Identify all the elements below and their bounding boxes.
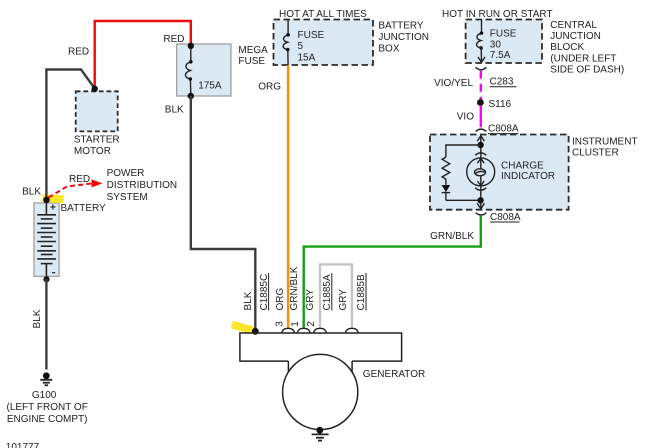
- svg-text:BATTERY: BATTERY: [61, 203, 107, 214]
- svg-text:101777: 101777: [6, 442, 40, 448]
- wire RED battery feed: [95, 21, 191, 89]
- svg-text:2: 2: [306, 321, 317, 327]
- svg-text:VIO/YEL: VIO/YEL: [434, 78, 473, 89]
- instrument cluster box: [430, 135, 569, 210]
- svg-text:ENGINE COMPT): ENGINE COMPT): [7, 414, 88, 425]
- svg-text:RED: RED: [68, 47, 89, 58]
- svg-text:JUNCTION: JUNCTION: [378, 32, 429, 43]
- svg-text:BLK: BLK: [32, 309, 43, 328]
- wire BLK battery to G100: [45, 279, 47, 370]
- lamp charge indicator: [467, 148, 495, 199]
- wire into instrument cluster with up arrow: [477, 135, 484, 145]
- diode in cluster: [442, 185, 451, 192]
- svg-text:G100: G100: [32, 390, 57, 401]
- svg-text:(UNDER LEFT: (UNDER LEFT: [550, 53, 616, 64]
- svg-text:MEGA: MEGA: [238, 45, 268, 56]
- ground G100: [43, 372, 50, 379]
- svg-text:INSTRUMENT: INSTRUMENT: [572, 136, 638, 147]
- svg-text:30: 30: [490, 40, 502, 51]
- svg-text:BLK: BLK: [165, 105, 184, 116]
- fuse F5 15A in battery junction box: [283, 20, 288, 66]
- svg-text:GRY: GRY: [305, 289, 316, 311]
- svg-text:FUSE: FUSE: [238, 56, 265, 67]
- svg-text:INDICATOR: INDICATOR: [501, 171, 555, 182]
- connector C283: [476, 67, 487, 70]
- svg-text:175A: 175A: [198, 81, 222, 92]
- svg-text:BOX: BOX: [378, 43, 399, 54]
- svg-text:15A: 15A: [298, 52, 316, 63]
- generator body: [240, 333, 402, 361]
- generator pin 1 socket: [297, 328, 310, 333]
- svg-text:SYSTEM: SYSTEM: [107, 192, 148, 203]
- svg-text:C808A: C808A: [490, 212, 521, 223]
- svg-text:RED: RED: [163, 34, 184, 45]
- svg-text:GRY: GRY: [338, 289, 349, 311]
- svg-text:CENTRAL: CENTRAL: [550, 20, 597, 31]
- wire BLK mega fuse to generator: [191, 96, 256, 331]
- svg-text:FUSE: FUSE: [298, 30, 325, 41]
- highlighter mark on generator BLK pin: [232, 325, 253, 331]
- fuse F1 175A mega fuse: [185, 46, 190, 96]
- svg-text:BATTERY: BATTERY: [378, 21, 424, 32]
- svg-text:SIDE OF DASH): SIDE OF DASH): [550, 65, 624, 76]
- svg-text:CLUSTER: CLUSTER: [572, 148, 619, 159]
- svg-text:RED: RED: [69, 174, 90, 185]
- wire VIO/YEL C283 to S116: [480, 71, 482, 100]
- svg-text:BLK: BLK: [22, 186, 41, 197]
- svg-text:HOT IN RUN OR START: HOT IN RUN OR START: [442, 9, 553, 20]
- svg-text:CHARGE: CHARGE: [501, 161, 544, 172]
- svg-text:BLK: BLK: [243, 291, 254, 310]
- ground at generator: [316, 427, 323, 434]
- generator pin 3 socket: [282, 328, 295, 333]
- svg-text:7.5A: 7.5A: [490, 50, 511, 61]
- wire BLK battery to starter junction: [46, 70, 94, 201]
- svg-text:(LEFT FRONT OF: (LEFT FRONT OF: [7, 402, 88, 413]
- resistor in cluster: [442, 145, 481, 185]
- connector C808A bottom: [476, 213, 487, 215]
- svg-text:BLOCK: BLOCK: [550, 42, 584, 53]
- connector C808A top: [476, 129, 487, 131]
- svg-text:VIO: VIO: [457, 111, 474, 122]
- svg-text:5: 5: [298, 41, 304, 52]
- fuse F30 7.5A in central junction block: [477, 20, 485, 63]
- red dashed arrow to power distribution system: [49, 184, 92, 198]
- battery box: [34, 203, 59, 276]
- svg-text:MOTOR: MOTOR: [74, 146, 111, 157]
- highlighter mark on battery: [43, 198, 64, 199]
- svg-text:3: 3: [275, 321, 286, 327]
- svg-text:GRN/BLK: GRN/BLK: [289, 266, 300, 310]
- svg-text:JUNCTION: JUNCTION: [550, 31, 601, 42]
- svg-text:STARTER: STARTER: [74, 135, 120, 146]
- svg-text:C283: C283: [490, 77, 514, 88]
- central junction block box: [466, 20, 542, 64]
- wire ORG fuse to generator: [287, 65, 289, 328]
- svg-text:FUSE: FUSE: [490, 29, 517, 40]
- starter motor M1 box: [76, 91, 118, 131]
- node BLK at mega fuse bottom: [188, 93, 194, 99]
- node top junction in cluster: [477, 142, 483, 148]
- svg-text:+: +: [50, 202, 56, 213]
- battery symbol internals: [43, 197, 50, 204]
- node junction at starter motor: [92, 86, 98, 92]
- wire GRN/BLK cluster to generator: [304, 216, 481, 328]
- generator pin C1885B socket: [346, 328, 359, 333]
- svg-text:1: 1: [290, 321, 301, 327]
- svg-text:DISTRIBUTION: DISTRIBUTION: [107, 180, 178, 191]
- svg-text:GENERATOR: GENERATOR: [363, 369, 425, 380]
- wire out of cluster with down arrow: [477, 200, 484, 209]
- node bottom junction in cluster: [477, 197, 483, 203]
- mega fuse box: [177, 44, 231, 96]
- node BLK at generator: [252, 328, 259, 335]
- svg-text:HOT AT ALL TIMES: HOT AT ALL TIMES: [279, 9, 367, 20]
- splice S116: [477, 99, 484, 106]
- svg-text:ORG: ORG: [275, 288, 286, 311]
- svg-text:POWER: POWER: [107, 168, 145, 179]
- generator pin 2 socket: [314, 328, 327, 333]
- wire GRY jumper loop C1885A to C1885B: [320, 264, 352, 328]
- svg-text:S116: S116: [489, 99, 512, 110]
- wire VIO S116 to C808A: [480, 106, 482, 128]
- svg-text:C808A: C808A: [488, 123, 519, 134]
- svg-text:ORG: ORG: [258, 82, 281, 93]
- node RED at mega fuse top: [188, 43, 194, 49]
- battery junction box: [274, 20, 374, 66]
- svg-text:GRN/BLK: GRN/BLK: [430, 231, 474, 242]
